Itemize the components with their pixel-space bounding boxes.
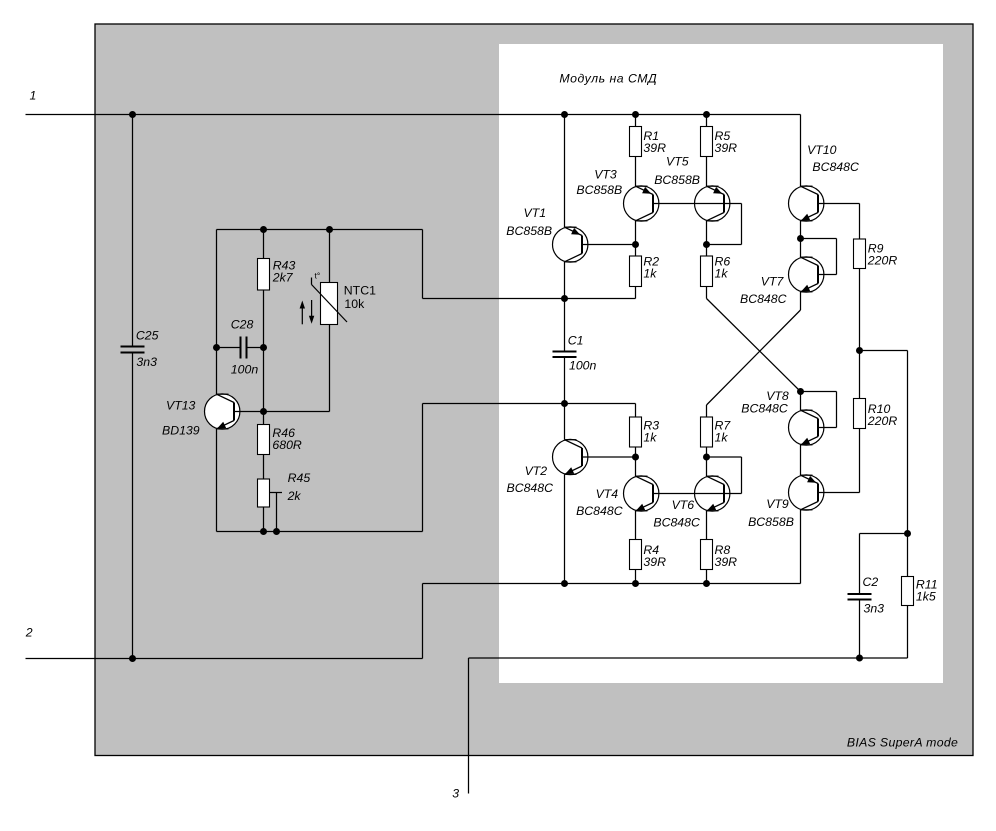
transistor VT4	[624, 476, 659, 511]
label C28	[231, 318, 254, 332]
label R8 value 39R	[715, 555, 738, 569]
transistor VT7	[789, 257, 824, 292]
junction R3 VT2 base	[632, 454, 639, 461]
wire R9 node to right rail	[860, 350, 908, 352]
wire into module upper	[423, 298, 636, 300]
svg-text:3n3: 3n3	[864, 602, 885, 616]
wire VT6 collector lead	[706, 457, 708, 476]
wire VT1 emitter feed	[564, 115, 566, 228]
wire R7 bottom stub	[706, 447, 708, 457]
label VT10	[807, 143, 837, 157]
wire R9 bottom lead	[859, 269, 861, 351]
label VT5	[666, 155, 689, 169]
junction C2 bottom	[856, 655, 863, 662]
svg-text:Модуль на СМД: Модуль на СМД	[559, 72, 657, 86]
label R10	[868, 402, 891, 416]
wire VT2 emitter lead	[564, 474, 566, 583]
transistor VT6	[695, 476, 730, 511]
svg-text:t°: t°	[315, 270, 321, 280]
resistor R8	[701, 540, 713, 570]
resistor R4	[630, 540, 642, 570]
label R9	[868, 242, 884, 256]
junction node1 VT1	[561, 111, 568, 118]
label C2 value 3n3	[864, 602, 885, 616]
thermistor NTC1	[300, 230, 347, 412]
wire VT3 collector lead	[635, 221, 637, 245]
wire right rail upper	[907, 351, 909, 534]
junction C25 terminal2	[129, 655, 136, 662]
wire R10 top stub	[859, 351, 861, 399]
wire VT4 emitter lead	[635, 511, 637, 540]
transistor VT2	[553, 439, 588, 474]
label C1 value 100n	[569, 359, 597, 373]
junction node1 C25	[129, 111, 136, 118]
svg-text:100n: 100n	[231, 363, 259, 377]
svg-text:680R: 680R	[272, 438, 302, 452]
junction VT8 collector	[797, 388, 804, 395]
svg-text:2k: 2k	[287, 489, 302, 503]
capacitor C2	[848, 534, 908, 659]
SMD module white area	[499, 44, 943, 683]
resistor R45 trimmer	[258, 479, 283, 532]
label R1 value 39R	[643, 141, 666, 155]
svg-text:BC858B: BC858B	[576, 183, 622, 197]
label Модуль на СМД	[559, 72, 657, 86]
junction R9 R10 node	[856, 347, 863, 354]
junction VT13 base	[260, 408, 267, 415]
label R45	[288, 471, 311, 485]
resistor R6	[701, 256, 713, 287]
resistor R43	[258, 259, 270, 291]
svg-text:BC848C: BC848C	[507, 481, 554, 495]
wire VT7 base loop	[801, 239, 837, 275]
label R3	[643, 419, 659, 433]
label C28 value 100n	[231, 363, 259, 377]
label VT13	[166, 399, 196, 413]
wire R2 top stub	[635, 245, 637, 257]
wire bottom right rail	[469, 657, 908, 659]
svg-text:VT1: VT1	[524, 206, 547, 220]
svg-text:VT5: VT5	[666, 155, 689, 169]
svg-text:BC858B: BC858B	[748, 515, 794, 529]
transistor VT13	[205, 394, 240, 429]
label NTC1	[344, 283, 376, 297]
wire VT9 emitter lead	[800, 510, 802, 584]
module board outline	[95, 24, 973, 756]
junction VT5 collector R6	[703, 241, 710, 248]
svg-text:2: 2	[25, 626, 33, 640]
svg-text:3: 3	[452, 786, 459, 800]
wire VT10 emitter lead	[800, 221, 802, 257]
label R6	[715, 255, 731, 269]
junction VT2 emitter rail	[561, 580, 568, 587]
svg-text:1k: 1k	[643, 266, 657, 280]
wire VT3 base line	[653, 203, 742, 205]
transistor VT1	[553, 227, 588, 262]
label C2	[863, 575, 879, 589]
svg-text:BD139: BD139	[162, 424, 200, 438]
transistor VT5	[695, 186, 730, 221]
label R45 value 2k	[287, 489, 302, 503]
junction R45 tap bottom	[273, 528, 280, 535]
wire R5 to VT5	[706, 157, 708, 187]
svg-text:BC848C: BC848C	[812, 160, 859, 174]
junction R43 top	[260, 226, 267, 233]
wire cross VT7 to R7	[707, 310, 801, 405]
svg-text:VT6: VT6	[672, 498, 695, 512]
label VT9	[766, 497, 789, 511]
label R2 value 1k	[643, 266, 657, 280]
svg-text:VT9: VT9	[766, 497, 789, 511]
junction R4 rail	[632, 580, 639, 587]
svg-text:BC858B: BC858B	[506, 224, 552, 238]
svg-text:1k5: 1k5	[916, 589, 936, 603]
wire VT2 base	[582, 456, 636, 458]
junction R8 rail	[703, 580, 710, 587]
wire VT1 collector lead	[564, 262, 566, 299]
junction node1 R5	[703, 111, 710, 118]
svg-text:VT3: VT3	[594, 168, 617, 182]
wire R10 bottom lead	[859, 429, 861, 493]
label R4 value 39R	[643, 555, 666, 569]
wire VT7 emitter stub	[800, 292, 802, 310]
wire R4 bottom stub	[635, 570, 637, 584]
wire R11 bottom stub	[907, 606, 909, 659]
label R43 value 2k7	[272, 270, 294, 284]
junction VT10 emitter	[797, 235, 804, 242]
wire VT1 base	[582, 244, 636, 246]
wire R6 bottom stub	[706, 287, 708, 299]
wire terminal2 rail	[26, 658, 423, 660]
wire R7 top stub	[706, 405, 708, 417]
junction VT1 collector C1	[561, 295, 568, 302]
wire R43 top stub	[263, 230, 265, 259]
resistor R3	[630, 417, 642, 447]
terminal 1 label	[30, 88, 37, 102]
label R11 value 1k5	[916, 589, 936, 603]
label VT8	[766, 389, 789, 403]
wire cross R6 to VT8 node	[707, 299, 801, 392]
wire riser term2 to module rail	[422, 584, 424, 659]
wire R6 top stub	[706, 245, 708, 257]
wire VT9 base line	[818, 492, 860, 494]
label R5	[715, 129, 731, 143]
wire VT5 collector lead	[706, 221, 708, 245]
label R6 value 1k	[715, 266, 729, 280]
svg-text:220R: 220R	[867, 414, 898, 428]
label R7 value 1k	[715, 430, 729, 444]
label R46 value 680R	[272, 438, 302, 452]
wire R11 top stub	[907, 534, 909, 577]
wire VT5 base loop	[707, 204, 742, 245]
label R7	[715, 419, 732, 433]
wire VT13 emitter lead	[216, 429, 218, 532]
label R11	[916, 578, 938, 592]
capacitor C1	[553, 299, 577, 404]
svg-text:39R: 39R	[715, 555, 738, 569]
resistor R2	[630, 256, 642, 287]
transistor VT9	[789, 475, 824, 510]
label VT4 type BC848C	[576, 504, 623, 518]
wire bias block bottom	[217, 531, 423, 533]
label BD139	[162, 424, 200, 438]
wire VT10 base line	[818, 204, 860, 240]
svg-text:VT10: VT10	[807, 143, 837, 157]
label VT9 type BC858B	[748, 515, 794, 529]
wire bias block top	[217, 229, 423, 231]
svg-text:220R: 220R	[867, 253, 898, 267]
label C1	[568, 334, 584, 348]
label VT3 type BC858B	[576, 183, 622, 197]
label R3 value 1k	[643, 430, 657, 444]
junction R7 VT6 collector	[703, 454, 710, 461]
transistor VT3	[624, 186, 659, 221]
wire VT6 emitter lead	[706, 511, 708, 540]
label VT6	[672, 498, 695, 512]
label R10 value 220R	[867, 414, 898, 428]
resistor R5	[701, 127, 713, 157]
wire R3 bottom stub	[635, 447, 637, 457]
label NTC1 value 10k	[344, 297, 365, 311]
wire module bottom rail	[423, 583, 801, 585]
wire VT4 base line	[653, 493, 742, 495]
svg-text:1k: 1k	[715, 430, 729, 444]
junction VT1 base R2	[632, 241, 639, 248]
label R4	[643, 543, 659, 557]
svg-text:NTC1: NTC1	[344, 283, 376, 297]
transistor VT10	[789, 186, 824, 221]
svg-text:BC848C: BC848C	[740, 292, 787, 306]
svg-text:BC848C: BC848C	[576, 504, 623, 518]
label VT6 type BC848C	[653, 516, 700, 530]
wire VT4 collector lead	[635, 457, 637, 476]
wire R43 to VT13 base node	[263, 290, 265, 425]
wire into module lower	[423, 403, 636, 405]
label R9 value 220R	[867, 253, 898, 267]
svg-text:C1: C1	[568, 334, 584, 348]
wire R45 bottom stub	[263, 507, 265, 532]
svg-text:VT2: VT2	[525, 464, 548, 478]
wire R3 top stub	[635, 404, 637, 418]
svg-text:100n: 100n	[569, 359, 597, 373]
svg-text:C28: C28	[231, 318, 254, 332]
svg-text:1: 1	[30, 88, 37, 102]
junction C28 left	[213, 344, 220, 351]
label R5 value 39R	[715, 141, 738, 155]
svg-text:R45: R45	[288, 471, 311, 485]
resistor R9	[854, 239, 866, 269]
label BIAS SuperA mode	[847, 735, 958, 749]
label VT2	[525, 464, 548, 478]
junction NTC1 top	[326, 226, 333, 233]
resistor R46	[258, 425, 270, 455]
junction node1 R1	[632, 111, 639, 118]
terminal 2 label	[25, 626, 33, 640]
wire top rail node1	[26, 114, 801, 116]
label VT1	[524, 206, 547, 220]
label VT4	[596, 487, 619, 501]
terminal 3 label	[452, 786, 459, 800]
wire VT13 collector lead	[216, 230, 218, 395]
svg-text:39R: 39R	[643, 141, 666, 155]
transistor VT8	[789, 410, 824, 445]
svg-text:BC858B: BC858B	[654, 173, 700, 187]
svg-text:VT4: VT4	[596, 487, 619, 501]
label R1	[643, 129, 659, 143]
svg-text:VT7: VT7	[761, 275, 785, 289]
junction right rail C2	[904, 530, 911, 537]
wire VT8 collector lead	[800, 392, 802, 411]
label R8	[715, 543, 731, 557]
svg-text:BC848C: BC848C	[741, 402, 788, 416]
resistor R11	[902, 577, 914, 606]
junction C28 right	[260, 344, 267, 351]
wire riser block bottom	[422, 404, 424, 532]
junction R45 bottom	[260, 528, 267, 535]
wire R2 bottom stub	[635, 287, 637, 299]
svg-text:39R: 39R	[643, 555, 666, 569]
svg-text:10k: 10k	[344, 297, 365, 311]
resistor R10	[854, 399, 866, 429]
wire C25 top lead	[132, 115, 134, 346]
wire R1 to VT3	[635, 157, 637, 187]
label C25 value 3n3	[136, 355, 157, 369]
label VT7 type BC848C	[740, 292, 787, 306]
label VT3	[594, 168, 617, 182]
svg-text:1k: 1k	[715, 266, 729, 280]
label VT8 type BC848C	[741, 402, 788, 416]
label VT7	[761, 275, 785, 289]
svg-text:BIAS SuperA mode: BIAS SuperA mode	[847, 735, 958, 749]
wire VT8 base loop	[801, 392, 837, 428]
wire R46 to R45	[263, 455, 265, 480]
svg-text:VT13: VT13	[166, 399, 196, 413]
wire R5 top stub	[706, 115, 708, 127]
label C25	[136, 329, 159, 343]
label VT1 type BC858B	[506, 224, 552, 238]
wire C25 bottom lead	[132, 354, 134, 659]
wire drop to node VT1 collector	[422, 230, 424, 299]
label VT10 type BC848C	[812, 160, 859, 174]
svg-text:3n3: 3n3	[136, 355, 157, 369]
wire R8 bottom stub	[706, 570, 708, 584]
junction C1 bottom	[561, 400, 568, 407]
wire VT13 base	[234, 411, 330, 413]
resistor R1	[630, 127, 642, 157]
wire VT6 base loop	[707, 457, 742, 494]
svg-text:BC848C: BC848C	[653, 516, 700, 530]
wire terminal 3 drop	[468, 658, 470, 794]
wire VT2 collector lead	[564, 404, 566, 440]
wire VT10 collector drop	[800, 115, 802, 187]
svg-text:2k7: 2k7	[272, 270, 294, 284]
svg-text:1k: 1k	[643, 430, 657, 444]
label VT5 type BC858B	[654, 173, 700, 187]
wire VT8 emitter lead	[800, 445, 802, 475]
capacitor C25	[121, 347, 145, 353]
resistor R7	[701, 417, 713, 447]
svg-text:C25: C25	[136, 329, 159, 343]
wire R1 top stub	[635, 115, 637, 127]
svg-text:C2: C2	[863, 575, 879, 589]
label R46	[272, 426, 295, 440]
label R2	[643, 255, 659, 269]
capacitor C28	[217, 337, 264, 359]
label VT2 type BC848C	[507, 481, 554, 495]
svg-text:39R: 39R	[715, 141, 738, 155]
label R43	[273, 259, 296, 273]
